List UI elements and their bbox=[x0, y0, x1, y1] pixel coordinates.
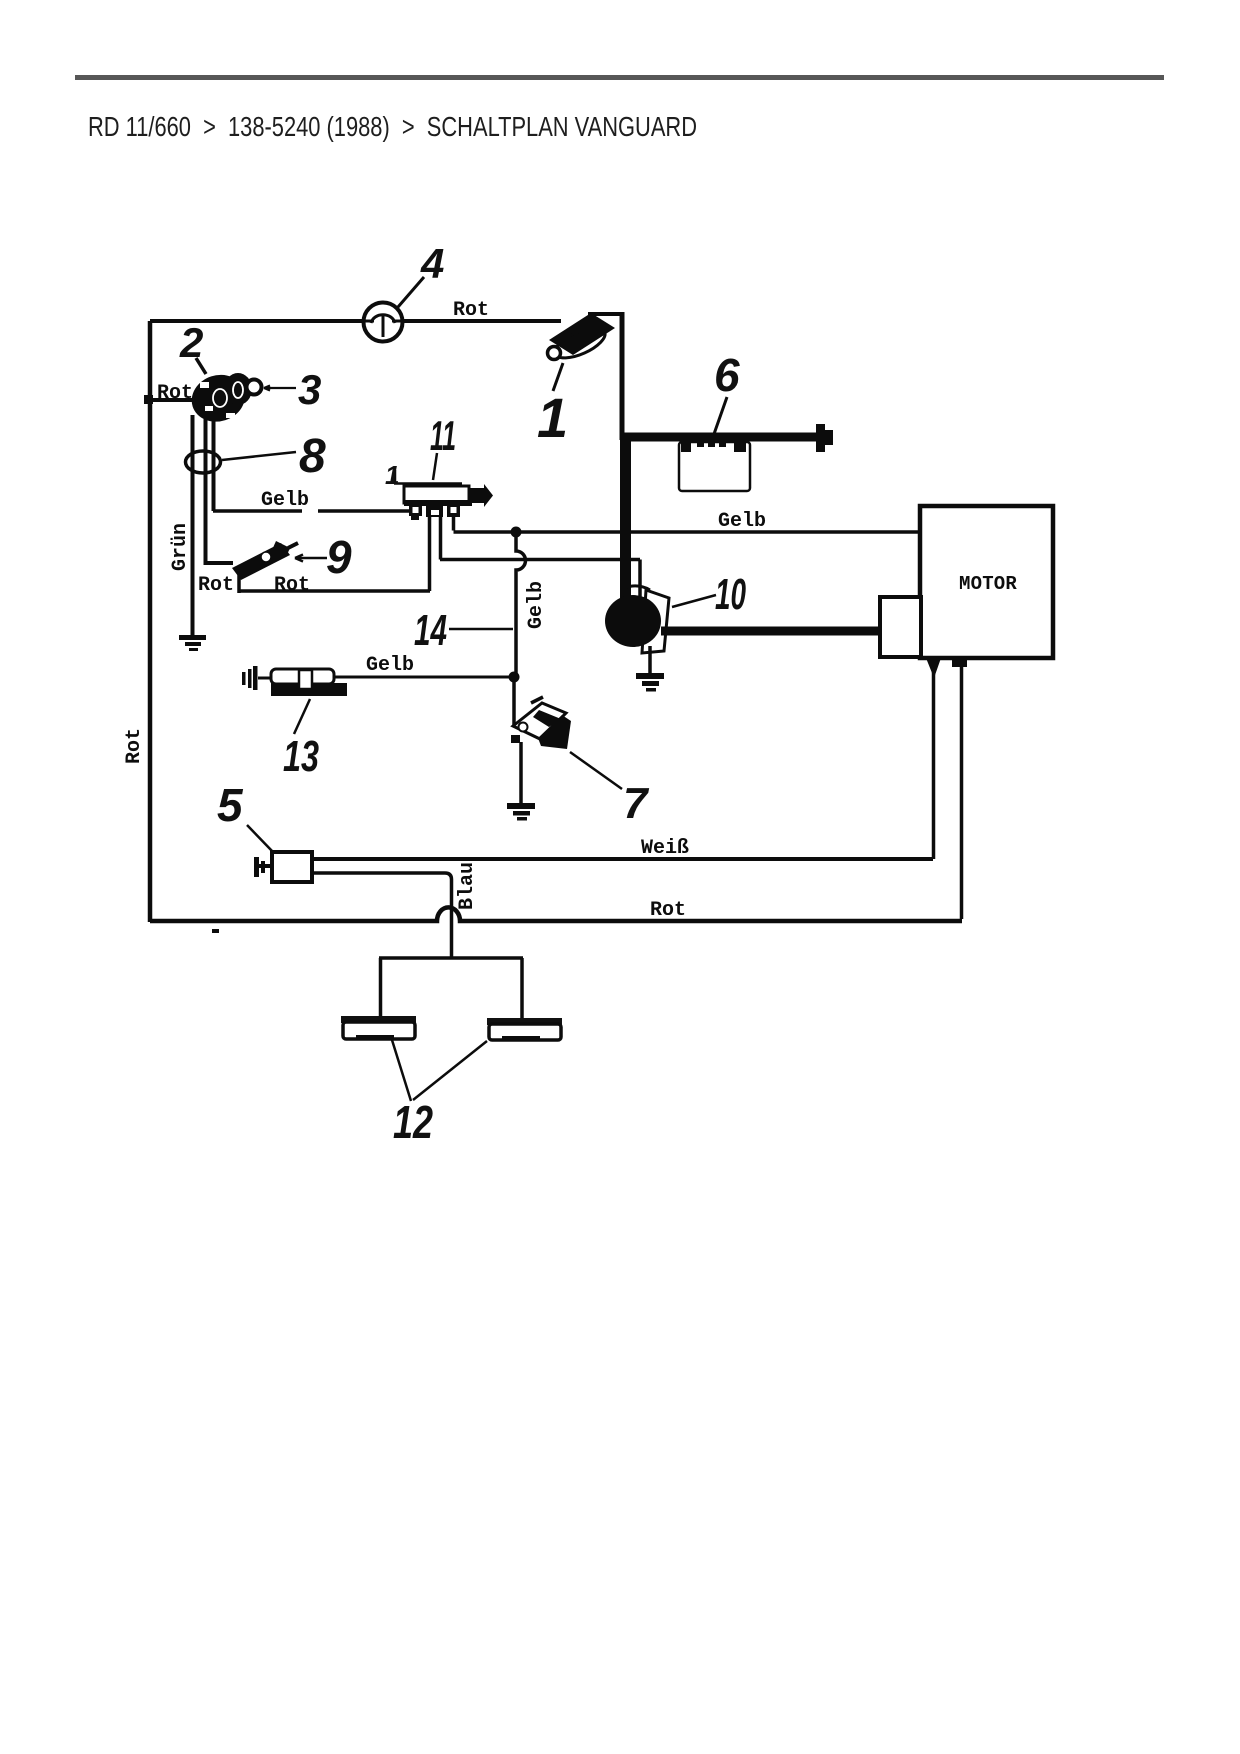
label 14 leader line bbox=[449, 628, 513, 631]
svg-text:Rot: Rot bbox=[650, 899, 686, 922]
svg-text:3: 3 bbox=[298, 366, 321, 413]
component 7 ground bbox=[507, 803, 535, 821]
svg-text:12: 12 bbox=[393, 1096, 433, 1148]
svg-text:6: 6 bbox=[714, 349, 740, 401]
svg-text:Gelb: Gelb bbox=[261, 489, 309, 512]
svg-text:13: 13 bbox=[283, 732, 319, 781]
component 13 fuse holder bbox=[242, 666, 347, 696]
wire Gelb to connector pin A bbox=[213, 509, 411, 513]
svg-text:MOTOR: MOTOR bbox=[959, 573, 1017, 595]
node junction on left border bbox=[144, 395, 153, 404]
svg-text:RD 11/660 > 138-5240 (1988): RD 11/660 > 138-5240 (1988) > SCHALTPLAN… bbox=[88, 111, 697, 142]
wire motor right lead down bbox=[960, 664, 964, 919]
wire thick battery feed horizontal bbox=[622, 433, 816, 442]
label 13 leader line bbox=[294, 699, 310, 734]
component 12 right disc bbox=[487, 1018, 562, 1041]
svg-text:2: 2 bbox=[179, 319, 203, 366]
label 6 leader line bbox=[714, 397, 727, 434]
svg-text:Gelb: Gelb bbox=[718, 510, 766, 533]
component 6 connector housing bbox=[679, 437, 750, 491]
label 3 leader arrow bbox=[264, 386, 296, 391]
stray mark below bottom wire bbox=[212, 929, 219, 933]
component 2 ignition switch bbox=[186, 368, 252, 428]
motor right lead stub bbox=[952, 658, 967, 667]
svg-text:14: 14 bbox=[414, 606, 447, 655]
wire connector pin B2 down then right to starter top bbox=[440, 515, 640, 599]
svg-text:Grün: Grün bbox=[169, 523, 192, 571]
svg-text:Rot: Rot bbox=[198, 574, 234, 597]
component 3 key ring bbox=[247, 380, 262, 395]
svg-text:Rot: Rot bbox=[274, 574, 310, 597]
wire switch to Gelb bend bbox=[212, 415, 216, 511]
wire Blau from component 5 bbox=[314, 873, 452, 958]
component 10 ground bbox=[636, 646, 664, 692]
wire down to left disc bbox=[379, 958, 383, 1016]
component 8 cable sleeve bbox=[186, 451, 221, 473]
header rule bbox=[75, 75, 1164, 80]
svg-text:10: 10 bbox=[715, 570, 746, 619]
component 12 left disc bbox=[341, 1016, 416, 1040]
svg-text:1: 1 bbox=[537, 386, 568, 449]
wire thick vertical to starter bbox=[620, 437, 631, 600]
wire component 7 to ground bbox=[519, 742, 523, 803]
wire Rot stub to ignition switch bbox=[150, 398, 205, 402]
wire from junction down to component 7 bbox=[512, 677, 516, 726]
component 1 switch bbox=[548, 313, 616, 364]
svg-text:Weiß: Weiß bbox=[641, 837, 689, 860]
wire top right segment bbox=[588, 312, 620, 316]
component 10 starter relay bbox=[605, 586, 669, 653]
wire motor left lead down bbox=[932, 668, 936, 859]
wire connector pin B down and left to component 9 bbox=[239, 515, 430, 593]
wire horizontal above discs bbox=[379, 956, 523, 960]
wire top border (Rot) bbox=[150, 319, 561, 323]
label 4 leader line bbox=[398, 277, 424, 307]
wire connector pin C down then Gelb to motor bbox=[454, 515, 921, 532]
component 4 indicator lamp bbox=[364, 303, 403, 342]
label 2 leader line bbox=[196, 358, 206, 374]
node junction dot on Gelb wire bbox=[511, 527, 522, 538]
node junction dot at Gelb/13 wire bbox=[509, 672, 520, 683]
svg-text:11: 11 bbox=[430, 412, 456, 459]
wire component 13 to junction (Gelb) bbox=[334, 676, 509, 679]
wire bottom border (Rot) with hop over Blau bbox=[150, 907, 962, 921]
svg-text:Gelb: Gelb bbox=[525, 581, 548, 629]
svg-text:Blau: Blau bbox=[456, 862, 479, 910]
component 11 connector block bbox=[394, 470, 493, 520]
wire vertical Gelb with hop over horizontal bbox=[516, 532, 526, 677]
motor left lead stub bbox=[926, 658, 941, 678]
label 8 leader line bbox=[222, 452, 296, 460]
wire down to right disc bbox=[520, 958, 524, 1018]
svg-text:8: 8 bbox=[299, 430, 326, 483]
svg-text:4: 4 bbox=[420, 240, 444, 287]
svg-text:Rot: Rot bbox=[453, 299, 489, 322]
svg-text:Gelb: Gelb bbox=[366, 654, 414, 677]
wire switch to component 9 vertical bbox=[206, 415, 234, 563]
wire right vertical to battery feed bbox=[620, 312, 625, 440]
label 5 leader line bbox=[247, 825, 273, 852]
svg-text:7: 7 bbox=[623, 779, 650, 828]
component 5 plug bbox=[254, 852, 312, 882]
label 12 leader lines bbox=[392, 1040, 487, 1101]
label 7 leader line bbox=[570, 752, 622, 789]
component 9 inline fuse bbox=[232, 541, 298, 580]
ground for Gruen wire bbox=[179, 635, 206, 651]
svg-text:9: 9 bbox=[326, 531, 352, 583]
wire Weiss horizontal bbox=[314, 857, 933, 861]
svg-text:5: 5 bbox=[217, 779, 244, 831]
MOTOR box bbox=[920, 506, 1053, 658]
svg-text:Rot: Rot bbox=[157, 382, 193, 405]
label 1 leader line bbox=[553, 363, 563, 391]
wire thick starter to motor connector bbox=[661, 627, 880, 636]
label 9 leader arrow bbox=[295, 555, 327, 562]
component 7 safety switch bbox=[511, 697, 571, 749]
wire left border (Rot) bbox=[148, 321, 153, 922]
svg-text:1: 1 bbox=[385, 460, 399, 490]
label 11 leader line bbox=[433, 453, 437, 480]
wire Gruen vertical to ground bbox=[191, 415, 195, 635]
arrowhead of battery feed bbox=[816, 424, 833, 452]
motor side connector box bbox=[880, 597, 921, 657]
label 10 leader line bbox=[672, 595, 716, 607]
svg-text:Rot: Rot bbox=[123, 728, 146, 764]
